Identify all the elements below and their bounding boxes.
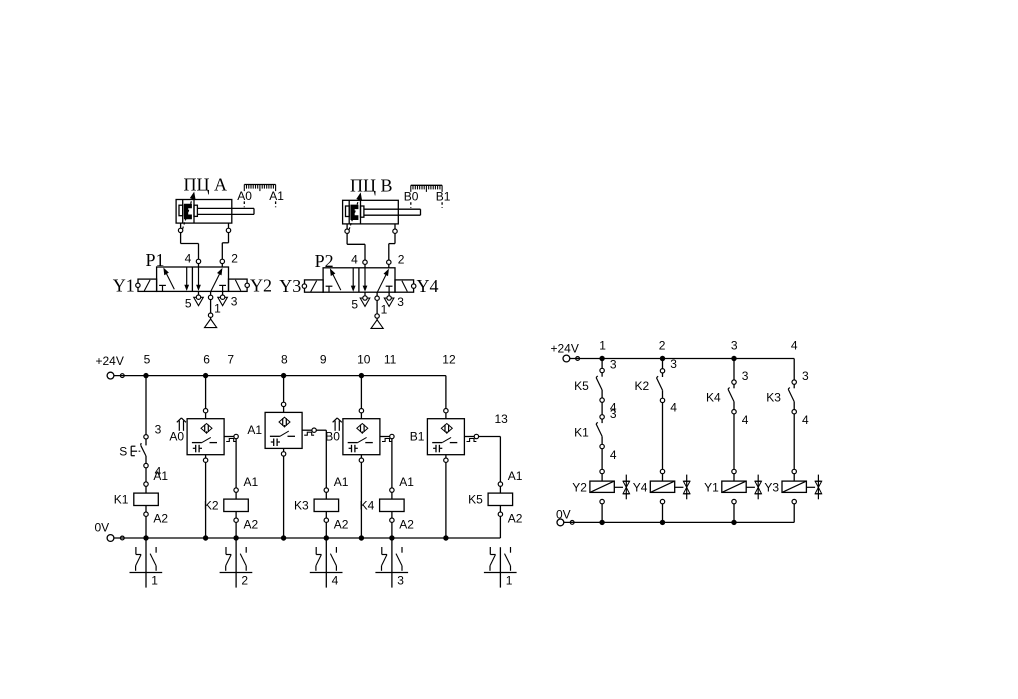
svg-text:A0: A0 (169, 429, 184, 443)
svg-text:A1: A1 (508, 469, 523, 483)
right ladder column x=662.5 wire from rail (662, 359, 664, 369)
svg-text:3: 3 (610, 358, 617, 372)
cylinder B piston rod (364, 208, 421, 210)
cylinder A cushion seal (179, 205, 183, 216)
valve cross-reference icon for Y2 (614, 486, 623, 488)
solenoid coil Y1 (722, 481, 746, 492)
svg-text:6: 6 (203, 353, 210, 367)
wire cylinder A right port to valve port 2 (228, 223, 230, 228)
junction on right 0V rail x=602.1 (599, 520, 604, 525)
cylinder A piston (magnet) (184, 204, 192, 219)
relay contact cross-reference under wire, contacts 3 (391, 538, 393, 588)
junction on right 0V rail x=734.0 (731, 520, 736, 525)
sensor A1 output with step mark (302, 429, 312, 431)
wire 7 sensor A0 output down to K2 (235, 439, 237, 488)
right ladder column x=734.0 wire from rail (733, 359, 735, 380)
valve P2 exhaust port 5 (364, 292, 366, 296)
node contact K4 terminal 4 (732, 410, 736, 414)
switch S contact (140, 443, 143, 445)
node contact K5 terminal 3 (600, 368, 604, 372)
junction on 0V rail x=391.9 (389, 535, 394, 540)
cylinder A actuation arrow (181, 198, 192, 234)
wire relay K2 to 0V rail (235, 522, 237, 538)
solenoid coil Y4 (650, 481, 674, 492)
svg-text:S: S (119, 444, 127, 458)
svg-text:3: 3 (397, 295, 404, 309)
junction on +24V rail x=146.0 (143, 373, 148, 378)
sensor B0 actuated arrow (334, 421, 336, 431)
node sensor A1 output (312, 428, 316, 432)
valve P2 exhaust port 3 (388, 292, 390, 296)
double-acting cylinder B body (343, 200, 399, 224)
sensor A0 symbol diamond (201, 424, 212, 434)
right ladder column x=602.1 wire from rail (601, 359, 603, 369)
svg-text:Y2: Y2 (250, 275, 272, 295)
wire sensor A0 to 0V rail (205, 455, 207, 458)
svg-text:K5: K5 (574, 379, 589, 393)
node solenoid coil Y2 bottom (600, 499, 604, 503)
node solenoid coil Y4 top (660, 469, 664, 473)
junction on +24V rail x=361.4 (359, 373, 364, 378)
svg-text:A2: A2 (244, 518, 259, 532)
svg-text:5: 5 (144, 353, 151, 367)
wire from +24V rail to sensor B1 (445, 376, 447, 409)
svg-text:A1: A1 (399, 475, 414, 489)
node sensor B1 plus terminal (444, 409, 448, 413)
relay contact cross-reference under wire, contacts 1 (145, 538, 147, 588)
svg-text:K5: K5 (468, 492, 483, 506)
node contact K1 terminal 4 (600, 444, 604, 448)
svg-text:A1: A1 (269, 189, 284, 203)
ruler scale for sensors A0/A1 (244, 184, 275, 186)
svg-text:4: 4 (742, 413, 749, 427)
svg-text:1: 1 (599, 339, 606, 353)
node valve P1 port 2 (220, 259, 224, 263)
node relay K1 terminal A1 (144, 482, 148, 486)
svg-text:A2: A2 (399, 518, 414, 532)
svg-text:5: 5 (351, 297, 358, 311)
node sensor B1 output (474, 434, 478, 438)
svg-text:2: 2 (231, 252, 238, 266)
node switch S terminal 3 (144, 435, 148, 439)
svg-text:3: 3 (742, 369, 749, 383)
junction on 0V rail x=326.3 (324, 535, 329, 540)
sensor B0 contact (361, 431, 363, 433)
svg-text:4: 4 (351, 253, 358, 267)
node solenoid coil Y3 bottom (792, 499, 796, 503)
node relay K3 terminal A2 (324, 518, 328, 522)
node sensor B0 output (390, 434, 394, 438)
node relay K5 terminal A2 (498, 512, 502, 516)
sensor A1 capacitor symbol (273, 439, 275, 447)
node contact K4 terminal 3 (732, 380, 736, 384)
node relay K1 terminal A2 (144, 512, 148, 516)
svg-text:B0: B0 (325, 429, 340, 443)
valve P1 left position flow paths (186, 267, 188, 286)
left ladder 0V rail (107, 535, 114, 542)
svg-text:5: 5 (185, 297, 192, 311)
wire relay K5 to 0V rail (499, 516, 501, 538)
node solenoid coil Y1 bottom (732, 499, 736, 503)
svg-text:ПЦ A: ПЦ A (184, 175, 228, 195)
solenoid Y2 of valve P1 (229, 279, 248, 291)
svg-text:4: 4 (791, 339, 798, 353)
svg-text:3: 3 (397, 573, 404, 587)
right ladder 0V rail (557, 519, 564, 526)
svg-text:2: 2 (241, 573, 248, 587)
svg-text:1: 1 (214, 302, 221, 316)
sensor B1 contact (446, 431, 448, 433)
cylinder A rod bearing (194, 205, 197, 216)
svg-text:K1: K1 (114, 492, 129, 506)
relay contact K3 (NO) (788, 388, 790, 390)
valve cross-reference icon for Y4 (675, 486, 684, 488)
valve P1 supply port 1 with air source (210, 291, 212, 295)
switch S branch wire (145, 376, 147, 435)
node valve P2 port 2 (387, 260, 391, 264)
node solenoid coil Y3 top (792, 469, 796, 473)
svg-text:+24V: +24V (96, 354, 124, 368)
sensor B1 output with step mark (464, 436, 474, 438)
junction on right +24V rail x=734.0 (731, 356, 736, 361)
svg-text:8: 8 (281, 353, 288, 367)
svg-text:2: 2 (398, 253, 405, 267)
cylinder B actuation arrow (348, 198, 359, 234)
cylinder B cushion seal (346, 206, 350, 217)
cylinder B piston (magnet) (350, 205, 358, 220)
right ladder +24V rail (563, 355, 570, 362)
wire relay K3 to 0V rail (325, 522, 327, 538)
svg-text:4: 4 (802, 413, 809, 427)
proximity sensor A1 box (265, 412, 302, 448)
svg-text:A0: A0 (237, 189, 252, 203)
svg-text:Y1: Y1 (704, 481, 719, 495)
svg-text:3: 3 (731, 339, 738, 353)
node contact K3 terminal 4 (792, 410, 796, 414)
relay coil K4 (380, 499, 405, 511)
relay coil K1 (134, 493, 159, 505)
wire relay K4 to 0V rail (391, 522, 393, 538)
svg-text:Y2: Y2 (572, 481, 587, 495)
svg-text:Y1: Y1 (113, 275, 135, 295)
junction on 0V rail x=146.0 (143, 535, 148, 540)
sensor A0 output with step mark (224, 436, 234, 438)
node relay K5 terminal A1 (498, 482, 502, 486)
wire sensor B1 to 0V rail (445, 455, 447, 458)
svg-text:3: 3 (802, 369, 809, 383)
wire from +24V rail to sensor A0 (205, 376, 207, 409)
node relay K2 terminal A1 (234, 488, 238, 492)
node sensor A1 plus terminal (281, 402, 285, 406)
double-acting cylinder A body (176, 200, 232, 224)
wire sensor B0 to 0V rail (360, 455, 362, 458)
node contact K2 terminal 4 (660, 398, 664, 402)
switch S manual actuator (130, 446, 132, 456)
wire from +24V rail to sensor A1 (283, 376, 285, 403)
node valve P2 port 4 (363, 260, 367, 264)
solenoid coil Y2 (590, 481, 614, 492)
svg-text:1: 1 (151, 573, 158, 587)
sensor B0 capacitor symbol (351, 445, 353, 453)
relay coil K3 (314, 499, 339, 511)
svg-text:K2: K2 (635, 379, 650, 393)
svg-text:K3: K3 (766, 391, 781, 405)
valve P1 exhaust port 5 (198, 291, 200, 295)
wire cylinder B right port to valve port 2 (394, 224, 396, 229)
svg-text:3: 3 (610, 407, 617, 421)
relay contact cross-reference under wire, contacts 1 (499, 547, 501, 587)
relay contact cross-reference under wire, contacts 2 (235, 538, 237, 588)
sensor B0 symbol diamond (357, 424, 368, 434)
svg-text:10: 10 (357, 353, 371, 367)
svg-text:4: 4 (332, 573, 339, 587)
solenoid Y3 of valve P2 (305, 280, 324, 292)
svg-text:0V: 0V (95, 521, 110, 535)
svg-text:3: 3 (231, 294, 238, 308)
svg-text:7: 7 (227, 353, 234, 367)
cylinder A piston rod (197, 207, 254, 209)
relay contact K5 (NO) (596, 376, 598, 378)
relay contact cross-reference under wire, contacts 4 (325, 538, 327, 588)
solenoid Y1 of valve P1 (138, 279, 157, 291)
svg-text:B0: B0 (404, 190, 419, 204)
junction on 0V rail x=361.4 (359, 535, 364, 540)
right ladder column x=794.2 wire from rail (793, 359, 795, 380)
wire relay K1 to 0V rail (145, 516, 147, 538)
svg-text:B1: B1 (410, 429, 425, 443)
svg-text:A2: A2 (508, 512, 523, 526)
svg-text:11: 11 (384, 353, 397, 367)
5/2-way valve P1 body (157, 267, 229, 291)
proximity sensor B0 box (343, 419, 380, 455)
sensor A1 symbol diamond (279, 417, 290, 427)
svg-text:Y4: Y4 (633, 481, 648, 495)
sensor B1 symbol diamond (441, 424, 452, 434)
svg-text:B1: B1 (436, 190, 451, 204)
valve P1 right position flow paths (198, 267, 200, 286)
wire sensor A1 to 0V rail (283, 448, 285, 451)
relay contact K2 (NO) (657, 376, 659, 378)
svg-text:K4: K4 (706, 391, 721, 405)
node sensor A0 output (234, 434, 238, 438)
junction on 0V rail x=205.6 (203, 535, 208, 540)
svg-text:A1: A1 (247, 423, 262, 437)
proximity sensor A0 box (187, 419, 224, 455)
valve P1 exhaust port 3 (222, 291, 224, 295)
sensor A0 actuated arrow (178, 421, 180, 431)
solenoid Y4 of valve P2 (395, 280, 414, 292)
svg-text:2: 2 (659, 339, 666, 353)
svg-text:Y3: Y3 (279, 276, 301, 296)
node contact K2 terminal 3 (660, 369, 664, 373)
relay contact K4 (NO) (728, 388, 730, 390)
node relay K4 terminal A2 (390, 518, 394, 522)
junction on right +24V rail x=662.5 (660, 356, 665, 361)
node valve P1 port 4 (196, 259, 200, 263)
svg-text:A1: A1 (334, 475, 349, 489)
svg-text:4: 4 (610, 448, 617, 462)
sensor B0 output with step mark (380, 436, 390, 438)
relay coil K2 (224, 499, 249, 511)
junction on +24V rail x=283.6 (281, 373, 286, 378)
svg-text:4: 4 (670, 400, 677, 414)
valve P2 supply port 1 with air source (376, 292, 378, 296)
valve cross-reference icon for Y3 (806, 486, 815, 488)
5/2-way valve P2 body (323, 268, 395, 292)
cylinder B rod bearing (361, 206, 364, 217)
relay contact K1 (NO) (596, 422, 598, 424)
svg-text:1: 1 (506, 573, 513, 587)
junction on 0V rail x=445.9 (443, 535, 448, 540)
junction on 0V rail x=236.1 (233, 535, 238, 540)
node solenoid coil Y1 top (732, 469, 736, 473)
wire cylinder A left port to valve port 4 (180, 223, 182, 228)
svg-text:A1: A1 (244, 475, 259, 489)
valve P2 left position flow paths (352, 268, 354, 287)
proximity sensor B1 box (427, 419, 464, 455)
svg-text:A2: A2 (334, 518, 349, 532)
ruler scale for sensors B0/B1 (411, 184, 442, 186)
sensor A0 capacitor symbol (195, 445, 197, 453)
solenoid coil Y3 (782, 481, 806, 492)
svg-text:A2: A2 (153, 512, 168, 526)
sensor B1 capacitor symbol (435, 445, 437, 453)
left ladder +24V rail (107, 372, 114, 379)
svg-text:4: 4 (185, 252, 192, 266)
svg-text:ПЦ B: ПЦ B (350, 175, 393, 195)
wire 11 sensor B0 output down to K4 (391, 439, 393, 488)
wire 9 sensor A1 output to K3 (316, 429, 326, 431)
svg-text:+24V: +24V (551, 342, 579, 356)
valve P2 right position flow paths (364, 268, 366, 287)
relay coil K5 (488, 493, 512, 505)
svg-text:3: 3 (670, 357, 677, 371)
svg-text:Y3: Y3 (764, 481, 779, 495)
node sensor B0 plus terminal (359, 409, 363, 413)
junction on right 0V rail x=662.5 (660, 520, 665, 525)
svg-text:3: 3 (155, 422, 162, 436)
svg-text:1: 1 (381, 302, 388, 316)
node relay K4 terminal A1 (390, 488, 394, 492)
svg-text:9: 9 (320, 353, 327, 367)
node solenoid coil Y4 bottom (660, 499, 664, 503)
wire cylinder B left port to valve port 4 (346, 224, 348, 229)
svg-text:K2: K2 (204, 498, 219, 512)
svg-text:12: 12 (442, 353, 456, 367)
svg-text:13: 13 (495, 412, 509, 426)
valve cross-reference icon for Y1 (746, 486, 755, 488)
svg-text:K1: K1 (574, 425, 589, 439)
svg-text:K3: K3 (294, 498, 309, 512)
node solenoid coil Y2 top (600, 469, 604, 473)
node contact K5 terminal 4 (600, 398, 604, 402)
node switch S terminal 4 (144, 463, 148, 467)
junction on right +24V rail x=602.1 (599, 356, 604, 361)
svg-text:Y4: Y4 (417, 276, 439, 296)
sensor A1 contact (284, 425, 286, 427)
svg-text:A1: A1 (153, 469, 168, 483)
sensor A0 contact (206, 431, 208, 433)
wire 13 sensor B1 output to K5 (479, 436, 501, 438)
junction on +24V rail x=205.6 (203, 373, 208, 378)
wire from +24V rail to sensor B0 (360, 376, 362, 409)
node sensor A0 plus terminal (203, 409, 207, 413)
node contact K3 terminal 3 (792, 380, 796, 384)
svg-text:K4: K4 (360, 498, 375, 512)
junction on 0V rail x=283.6 (281, 535, 286, 540)
node relay K3 terminal A1 (324, 488, 328, 492)
node contact K1 terminal 3 (600, 415, 604, 419)
node relay K2 terminal A2 (234, 518, 238, 522)
